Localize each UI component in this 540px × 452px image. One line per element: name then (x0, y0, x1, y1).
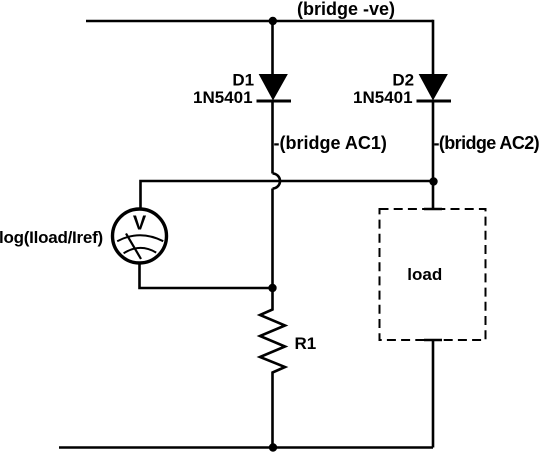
wire mid horizontal from voltmeter top corner to right branch (141, 181, 434, 209)
wire right vertical from top wire to D2 anode (432, 20, 435, 76)
resistor R1 (260, 288, 285, 448)
load bottom terminal tick (424, 339, 442, 342)
wire left vertical from junction to D1 anode (271, 21, 274, 76)
svg-text:-(bridge AC2): -(bridge AC2) (434, 133, 540, 153)
node junction dot bottom (269, 443, 277, 451)
node junction dot at resistor top (268, 284, 276, 292)
node junction dot top at D1 branch (269, 17, 277, 25)
wire from D2 cathode down to load box (432, 101, 435, 209)
wire hop over horizontal wire (273, 174, 281, 189)
svg-text:(bridge -ve): (bridge -ve) (297, 0, 395, 19)
wire bottom horizontal (59, 446, 433, 449)
svg-text:D2: D2 (392, 71, 414, 90)
svg-text:1N5401: 1N5401 (193, 88, 253, 107)
svg-text:load: load (407, 265, 442, 284)
svg-text:V: V (133, 213, 147, 235)
wire from voltmeter bottom down and right to junction (140, 262, 273, 289)
wire top horizontal (bridge -ve net) (86, 20, 433, 23)
wire from D1 cathode down to hop (271, 101, 274, 174)
wire from hop down to lower junction (271, 189, 274, 289)
load box (dashed) (380, 209, 486, 340)
svg-text:D1: D1 (232, 71, 254, 90)
svg-text:R1: R1 (295, 334, 317, 353)
svg-text:1N5401: 1N5401 (353, 88, 413, 107)
load top terminal tick (424, 208, 442, 211)
voltmeter lower scale arc (124, 248, 157, 253)
voltmeter U1 circle (113, 209, 167, 263)
node junction dot right at load branch (429, 177, 437, 185)
voltmeter needle (126, 234, 141, 260)
voltmeter upper scale arc (117, 235, 163, 241)
svg-text:log(Iload/Iref): log(Iload/Iref) (0, 228, 103, 247)
svg-text:-(bridge AC1): -(bridge AC1) (274, 133, 387, 153)
diode D2 (417, 75, 452, 102)
diode D1 (257, 75, 292, 102)
wire from load box bottom to bottom wire (432, 340, 435, 448)
